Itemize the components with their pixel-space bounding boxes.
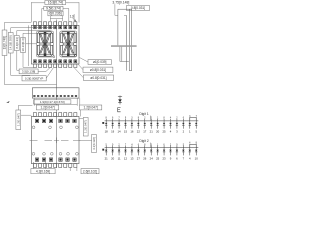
svg-text:9: 9 — [125, 118, 127, 120]
svg-text:6: 6 — [138, 144, 140, 146]
svg-text:26: 26 — [143, 156, 147, 160]
front view bottom pad row — [34, 60, 37, 63]
svg-text:5: 5 — [195, 130, 197, 134]
dim 1.9(9)=17.1[0.673] — [34, 100, 71, 104]
dim extension line right (x=79) — [78, 2, 80, 22]
digit1 LED 12 (pin 3) — [176, 118, 179, 134]
digit1 LED 6 (pin 22) — [137, 118, 141, 134]
svg-text:ø0.8[0.031]: ø0.8[0.031] — [90, 68, 106, 72]
svg-text:14: 14 — [117, 130, 121, 134]
digit2 LED 13 (pin 7) — [182, 144, 185, 160]
svg-text:5: 5 — [183, 144, 185, 146]
digit2 LED 1 (pin 21) — [105, 144, 109, 160]
front view top pin comb — [33, 22, 36, 26]
front view top pad row — [34, 26, 37, 29]
svg-text:8: 8 — [196, 143, 198, 145]
svg-text:23: 23 — [163, 156, 167, 160]
dim 14.2[0.559] (rotated) — [8, 33, 13, 54]
back view top pads — [35, 119, 38, 122]
digit1 LED 3 (pin 14) — [117, 118, 121, 134]
svg-text:1: 1 — [189, 130, 191, 134]
digit 1 decimal point — [53, 56, 55, 58]
svg-text:1: 1 — [157, 118, 159, 120]
svg-text:6: 6 — [183, 118, 185, 120]
side view substrate slab — [129, 9, 131, 70]
side view lead bend outline — [119, 47, 121, 62]
digit 1 segments (14-seg) — [39, 32, 52, 34]
dim 4.3[0.169] — [33, 162, 35, 171]
svg-text:15: 15 — [124, 130, 128, 134]
digit1 LED 13 (pin 2) — [182, 118, 185, 134]
digit2 LED 10 (pin 23) — [163, 144, 167, 160]
svg-text:18: 18 — [105, 130, 109, 134]
pin edge strip view outline — [32, 88, 79, 98]
digit2 end bracket — [190, 144, 196, 147]
svg-text:1.9(9)=17.1[0.673]: 1.9(9)=17.1[0.673] — [40, 100, 65, 104]
dim 0.2[0.008]TYP — [22, 76, 46, 81]
back view outline — [31, 116, 79, 163]
digit1 common bus — [105, 120, 199, 122]
digit1 LED 9 (pin 20) — [156, 118, 160, 134]
digit2 LED 9 (pin 25) — [156, 144, 160, 160]
svg-text:8: 8 — [106, 118, 108, 120]
dim 6[0.236] — [48, 11, 63, 16]
digit 1 window — [37, 31, 54, 57]
svg-text:2: 2 — [176, 118, 178, 120]
back view top holes — [32, 126, 35, 129]
svg-text:21: 21 — [105, 156, 109, 160]
side view lead (gray) — [111, 45, 137, 47]
back view bottom holes — [32, 152, 35, 155]
svg-text:4: 4 — [189, 156, 191, 160]
digit1 LED 11 (pin 4) — [169, 118, 172, 134]
dim 9.5[0.374] — [42, 8, 69, 10]
strip pin dashes — [33, 95, 35, 97]
svg-text:20: 20 — [156, 130, 160, 134]
dim 1.2[0.047] left — [36, 105, 58, 110]
small leader arrow — [6, 101, 9, 103]
dim 19[0.748] (rotated) — [2, 30, 7, 56]
LED polarity legend — [119, 96, 121, 105]
svg-text:2.6[0.102]: 2.6[0.102] — [83, 169, 97, 173]
digit2 LED 7 (pin 26) — [143, 144, 147, 160]
digit2 common bus — [105, 147, 199, 149]
dim 3.75 extension — [114, 4, 116, 15]
svg-text:16.8[0.74]: 16.8[0.74] — [48, 1, 63, 5]
digit2 LED 14 (pin 4) — [189, 143, 192, 161]
svg-text:7: 7 — [118, 118, 120, 120]
digit1 LED 2 (pin 19) — [111, 118, 115, 134]
back view bottom comb — [33, 164, 36, 168]
digit1 LED 10 (pin 25) — [163, 118, 167, 134]
svg-text:3.1[0.122]: 3.1[0.122] — [92, 137, 96, 150]
digit2 LED 11 (pin 9) — [169, 144, 172, 160]
digit 2 decimal point — [74, 54, 76, 56]
svg-text:12: 12 — [124, 156, 128, 160]
svg-text:6: 6 — [112, 118, 114, 120]
digit1 LED 1 (pin 18) — [105, 118, 109, 134]
digit2 LED 8 (pin 24) — [150, 144, 154, 160]
svg-text:8.4[0.33]: 8.4[0.33] — [15, 37, 19, 48]
dim 2.6[0.102] — [69, 168, 71, 172]
svg-text:7: 7 — [196, 116, 198, 118]
svg-text:19: 19 — [111, 130, 115, 134]
svg-text:ø1[0.039]: ø1[0.039] — [93, 60, 107, 64]
svg-text:3.5[0.138]: 3.5[0.138] — [22, 69, 36, 73]
dim extension line left (x=31.4) — [28, 25, 30, 66]
digit2 LED 5 (pin 13) — [130, 144, 134, 160]
svg-text:16: 16 — [130, 130, 134, 134]
svg-text:11: 11 — [118, 156, 121, 160]
back view centerline vertical — [56, 112, 58, 168]
svg-text:7: 7 — [183, 156, 185, 160]
digit2 LED 2 (pin 20) — [111, 144, 115, 160]
svg-text:7: 7 — [125, 144, 127, 146]
svg-text:8: 8 — [144, 144, 146, 146]
svg-text:24: 24 — [150, 156, 154, 160]
svg-text:1.9: 1.9 — [70, 14, 75, 18]
svg-text:4.3[0.169]: 4.3[0.169] — [36, 169, 50, 173]
back view bottom pads — [35, 158, 38, 161]
callout dia 0.8[0.031] upper — [83, 67, 113, 72]
svg-text:5: 5 — [151, 118, 153, 120]
digit 2 window — [60, 31, 77, 57]
back view top comb — [33, 113, 36, 117]
callout dia 1[0.039] — [88, 60, 111, 65]
dim 3.1[0.122] right rotated lower — [92, 135, 97, 153]
svg-text:9: 9 — [176, 144, 178, 146]
svg-text:3: 3 — [131, 118, 133, 120]
svg-text:9.5[0.374]: 9.5[0.374] — [46, 6, 61, 10]
digit1 LED 14 (pin 1) — [189, 116, 192, 134]
svg-text:1: 1 — [157, 144, 159, 146]
svg-text:27: 27 — [137, 156, 141, 160]
svg-text:4: 4 — [170, 118, 172, 120]
front view package outline — [31, 25, 79, 64]
dim 3.5[0.138] — [19, 69, 38, 74]
svg-text:Digit 2: Digit 2 — [139, 139, 149, 143]
dim 1.2[0.047] right — [80, 105, 102, 110]
side view top edge — [118, 8, 132, 10]
digit2 LED 6 (pin 27) — [137, 144, 141, 160]
svg-text:6: 6 — [176, 156, 178, 160]
svg-text:25: 25 — [156, 156, 160, 160]
digit1 LED 8 (pin 21) — [150, 118, 154, 134]
svg-text:4: 4 — [170, 130, 172, 134]
svg-text:25: 25 — [163, 130, 167, 134]
side view front face line — [117, 9, 119, 45]
digit 2 segments (14-seg) — [62, 32, 75, 34]
digit2 LED 15 (pin 10) — [195, 143, 199, 161]
svg-text:22: 22 — [137, 130, 141, 134]
svg-text:2: 2 — [183, 130, 185, 134]
digit1 LED 5 (pin 16) — [130, 118, 134, 134]
digit1 LED 7 (pin 17) — [143, 118, 147, 134]
digit2 LED 3 (pin 11) — [118, 144, 121, 160]
side view lens face line — [125, 15, 127, 70]
svg-text:14.2[0.559]: 14.2[0.559] — [9, 35, 13, 50]
svg-text:21: 21 — [150, 130, 154, 134]
svg-text:1.2[0.047]: 1.2[0.047] — [16, 113, 20, 126]
svg-text:13: 13 — [130, 156, 134, 160]
dim 1.2[0.047] left rotated — [16, 110, 21, 130]
vertical centerline through views — [56, 20, 58, 112]
svg-text:3: 3 — [176, 130, 178, 134]
svg-text:3.75[0.148]: 3.75[0.148] — [112, 1, 129, 5]
dim 10.16[0.4] (rotated) — [21, 38, 26, 53]
svg-text:1.2[0.047]: 1.2[0.047] — [84, 106, 98, 110]
svg-text:19[0.748]: 19[0.748] — [3, 36, 7, 49]
dim 1.2[0.047] right rotated upper — [83, 118, 88, 137]
svg-text:3: 3 — [151, 144, 153, 146]
svg-text:ø0.8[0.031]: ø0.8[0.031] — [90, 76, 106, 80]
digit1 LED 4 (pin 15) — [124, 118, 128, 134]
svg-text:6[0.236]: 6[0.236] — [49, 12, 61, 16]
callout dia 0.8[0.031] lower — [83, 75, 113, 80]
svg-text:10.16[0.4]: 10.16[0.4] — [21, 38, 25, 51]
digit2 LED 12 (pin 6) — [176, 144, 179, 160]
dim 8.4[0.33] (rotated) — [14, 36, 19, 51]
svg-text:8: 8 — [163, 118, 165, 120]
svg-text:Digit 1: Digit 1 — [139, 112, 149, 116]
svg-text:1.2[0.047]: 1.2[0.047] — [40, 106, 54, 110]
svg-text:8: 8 — [138, 118, 140, 120]
svg-text:6: 6 — [163, 144, 165, 146]
svg-text:9: 9 — [170, 156, 172, 160]
side view dim 0.8[0.031] — [126, 6, 149, 11]
svg-text:4: 4 — [131, 144, 133, 146]
svg-text:17: 17 — [143, 130, 147, 134]
svg-text:5: 5 — [106, 144, 108, 146]
svg-text:10: 10 — [195, 156, 199, 160]
digit1 end bracket — [190, 118, 196, 121]
front view bottom pin comb — [33, 64, 36, 68]
back view center crosshair — [30, 139, 38, 141]
svg-text:9: 9 — [112, 144, 114, 146]
dim jog mid-height — [26, 43, 37, 45]
svg-text:1.2[0.047]: 1.2[0.047] — [84, 120, 88, 133]
svg-text:20: 20 — [111, 156, 115, 160]
dim 16.8[0.74] — [31, 2, 79, 4]
digit1 LED 15 (pin 5) — [195, 116, 198, 134]
svg-text:2: 2 — [144, 118, 146, 120]
svg-text:2: 2 — [118, 144, 120, 146]
svg-text:0.2[0.008]TYP: 0.2[0.008]TYP — [25, 76, 44, 80]
digit2 LED 4 (pin 12) — [124, 144, 128, 160]
svg-text:2: 2 — [170, 144, 172, 146]
svg-text:0.8[0.031]: 0.8[0.031] — [131, 6, 145, 10]
